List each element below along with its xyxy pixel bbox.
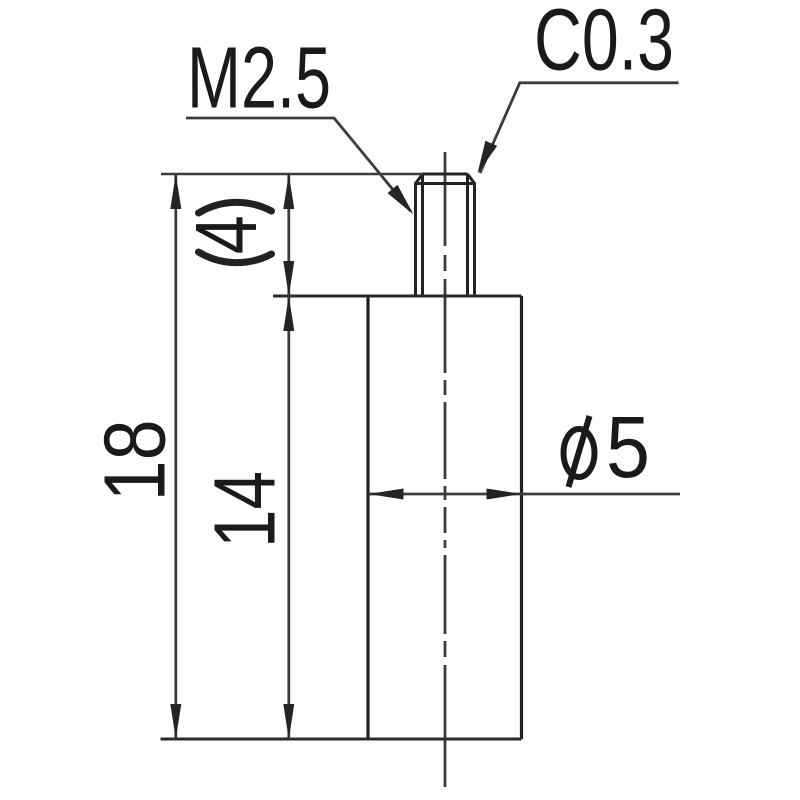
svg-text:4: 4	[178, 215, 275, 254]
svg-text:18: 18	[87, 419, 184, 501]
svg-text:M2.5: M2.5	[187, 30, 331, 127]
svg-text:5: 5	[606, 399, 650, 496]
svg-text:14: 14	[197, 471, 294, 548]
svg-text:C0.3: C0.3	[534, 0, 674, 89]
